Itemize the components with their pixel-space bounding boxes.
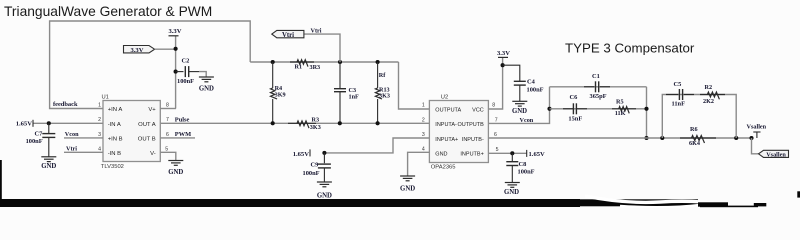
wire U1 pin8 stub [160, 108, 176, 110]
net label Vtri left [66, 146, 77, 153]
wire 3.3V port [155, 48, 176, 50]
wire 3.3V rail [175, 36, 177, 109]
svg-text:OUTPUTB: OUTPUTB [458, 122, 485, 128]
node dot C9 [322, 151, 326, 155]
svg-text:15nF: 15nF [568, 116, 582, 123]
svg-text:OUT B: OUT B [138, 136, 156, 142]
net label Vcon left [65, 131, 79, 138]
capacitor C8 [506, 153, 534, 182]
svg-text:8: 8 [166, 103, 169, 109]
wire C6 R5 mid [550, 108, 647, 110]
svg-text:Pulse: Pulse [175, 117, 190, 124]
resistor R6 [680, 126, 716, 147]
capacitor C9 [303, 153, 331, 182]
ground C8 [504, 183, 520, 197]
net tick Vsallen [753, 132, 760, 138]
svg-text:3K3: 3K3 [379, 92, 390, 99]
svg-text:U2: U2 [441, 94, 448, 100]
node dot C7 [47, 121, 51, 125]
net tick 1.65V mid [309, 149, 311, 156]
wire U2 pin5 [488, 152, 526, 154]
svg-text:C5: C5 [674, 81, 682, 88]
ground C4 [512, 101, 527, 115]
svg-text:Vtri: Vtri [311, 27, 322, 34]
svg-text:GND: GND [41, 163, 56, 170]
svg-text:OPA2365: OPA2365 [431, 165, 456, 171]
scan artifact left bar [0, 160, 2, 200]
svg-text:1: 1 [422, 103, 425, 109]
svg-text:V-: V- [150, 151, 156, 157]
scan artifact bottom bar [0, 191, 800, 207]
wire U1 pin4 Vtri stub [64, 151, 103, 153]
node dot R4 top [271, 60, 275, 64]
node dot 3.3V port [174, 47, 178, 51]
resistor R2 [700, 84, 725, 105]
svg-text:Rf: Rf [379, 72, 386, 79]
net label feedback [53, 101, 78, 108]
pin numbers U2 left [422, 103, 425, 153]
svg-text:C7: C7 [35, 130, 44, 137]
capacitor C5 [666, 81, 694, 108]
net label Vtri [311, 27, 322, 34]
node dot loop2 right [734, 136, 738, 140]
svg-text:5: 5 [496, 147, 499, 153]
svg-text:INPUTA-: INPUTA- [435, 122, 457, 128]
op-amp U2 [429, 94, 488, 170]
ground U2 pin4 [400, 176, 415, 192]
resistor R3 [288, 117, 321, 131]
svg-text:U1: U1 [102, 95, 109, 101]
port Vsallen [759, 150, 789, 158]
node dot C3 bottom [338, 121, 342, 125]
svg-text:3.3V: 3.3V [130, 47, 143, 54]
capacitor C1 [584, 73, 610, 100]
title: TriangualWave Generator & PWM [4, 4, 212, 19]
node dot R13 top [376, 60, 380, 64]
ground C9 [317, 182, 332, 199]
resistor R4 [271, 62, 286, 123]
svg-text:C2: C2 [182, 58, 190, 65]
net label PWM [160, 131, 195, 138]
title: TYPE 3 Compensator [565, 41, 695, 56]
svg-text:6: 6 [494, 132, 497, 138]
wire top row [250, 61, 398, 63]
net label 1.65V left [16, 121, 33, 128]
wire U2 pin3 [324, 138, 429, 153]
svg-text:3R3: 3R3 [310, 64, 321, 71]
svg-text:GND: GND [317, 192, 332, 199]
svg-text:2: 2 [422, 117, 425, 123]
svg-text:GND: GND [400, 185, 415, 192]
svg-text:INPUTA+: INPUTA+ [435, 137, 458, 143]
net label Vsallen [747, 124, 767, 131]
pin numbers U2 right [492, 103, 498, 153]
svg-text:100nF: 100nF [303, 170, 320, 177]
wire feedback loop [50, 21, 251, 109]
capacitor C3 [334, 62, 359, 123]
wire U1 pin3 Vcon stub [64, 137, 103, 139]
svg-text:1: 1 [98, 103, 101, 109]
svg-text:OUTPUTA: OUTPUTA [435, 108, 461, 114]
svg-text:Vtri: Vtri [282, 32, 294, 39]
wire U1 pin2 1.65V [33, 122, 103, 124]
resistor R1 [290, 60, 320, 71]
svg-text:R2: R2 [705, 84, 713, 91]
svg-text:GND: GND [199, 86, 214, 93]
svg-text:C8: C8 [519, 161, 527, 168]
svg-text:3.3V: 3.3V [497, 50, 510, 57]
svg-text:feedback: feedback [53, 101, 78, 108]
node dot comp mid right [644, 107, 648, 111]
svg-text:PWM: PWM [175, 131, 191, 138]
svg-text:-IN B: -IN B [108, 151, 121, 157]
svg-text:GND: GND [504, 189, 519, 196]
capacitor C6 [563, 94, 587, 122]
svg-text:7: 7 [166, 117, 169, 123]
capacitor C2 [176, 58, 207, 85]
wire INPUTB- row [488, 137, 751, 139]
wire Vcon [488, 87, 549, 124]
svg-text:Vsallen: Vsallen [747, 124, 767, 131]
ground C2 [199, 77, 214, 93]
svg-text:3: 3 [422, 132, 425, 138]
svg-text:4: 4 [98, 146, 101, 152]
svg-text:GND: GND [168, 169, 183, 176]
svg-text:GND: GND [512, 108, 527, 115]
net tick 1.65V right [526, 150, 528, 157]
node dot C2 branch [174, 70, 178, 74]
svg-text:1nF: 1nF [349, 93, 360, 100]
op-amp U1 [101, 95, 161, 170]
svg-text:100nF: 100nF [518, 168, 535, 175]
svg-text:Vcon: Vcon [520, 117, 534, 124]
svg-text:TLV3502: TLV3502 [101, 164, 124, 170]
svg-text:1.65V: 1.65V [529, 151, 546, 158]
wire U2 pin8 stub [488, 57, 502, 109]
pin numbers U1 right [165, 103, 169, 153]
svg-text:V+: V+ [148, 107, 156, 113]
svg-text:365pF: 365pF [590, 93, 607, 100]
svg-text:+IN B: +IN B [108, 136, 123, 142]
node dot C8 [510, 151, 514, 155]
svg-text:C6: C6 [570, 94, 579, 101]
svg-text:8: 8 [492, 103, 495, 109]
svg-text:7: 7 [495, 117, 498, 123]
wire U2 pin4 [408, 152, 430, 176]
wire U2 pin1 drop [399, 62, 430, 109]
svg-text:2K2: 2K2 [703, 98, 714, 105]
svg-text:R1: R1 [295, 64, 303, 71]
wire Pulse row [160, 122, 429, 124]
svg-text:INPUTB-: INPUTB- [462, 137, 484, 143]
wire comp right vertical [646, 87, 648, 138]
net label Vcon right [520, 117, 534, 124]
svg-text:C4: C4 [527, 78, 536, 85]
wire Vtri [304, 34, 340, 62]
svg-text:100nF: 100nF [177, 78, 194, 85]
svg-text:Vtri: Vtri [66, 146, 77, 153]
svg-text:3: 3 [98, 132, 101, 138]
port 3.3V [124, 46, 155, 55]
node dot comp left [547, 107, 551, 111]
svg-text:11nF: 11nF [672, 101, 686, 108]
wire U1 pin5 [160, 152, 176, 160]
svg-text:INPUTB+: INPUTB+ [460, 151, 483, 157]
svg-text:GND: GND [435, 151, 447, 157]
svg-text:3.3V: 3.3V [168, 28, 181, 35]
svg-text:Vcon: Vcon [65, 131, 79, 138]
svg-text:6K4: 6K4 [689, 140, 700, 147]
svg-text:C1: C1 [592, 73, 600, 80]
svg-text:100nF: 100nF [26, 138, 43, 145]
wire loop2 [662, 95, 736, 139]
svg-text:+IN A: +IN A [108, 107, 123, 113]
svg-text:C9: C9 [311, 162, 319, 169]
svg-text:VCC: VCC [472, 108, 484, 114]
capacitor C7 [26, 123, 56, 157]
svg-text:2: 2 [98, 117, 101, 123]
svg-text:-IN A: -IN A [108, 122, 121, 128]
net label 1.65V right [529, 151, 546, 158]
ground C7 [41, 157, 56, 170]
svg-text:100nF: 100nF [527, 87, 544, 94]
wire C1 top [550, 86, 647, 88]
svg-text:6: 6 [166, 132, 169, 138]
node dot R4 bottom [271, 121, 275, 125]
svg-text:R5: R5 [616, 99, 624, 106]
node dot C4 branch [501, 63, 505, 67]
net label Pulse [175, 117, 190, 124]
node dot Vsallen [749, 136, 753, 140]
net label 1.65V mid [293, 151, 310, 158]
svg-text:3K9: 3K9 [275, 92, 286, 99]
node dot loop2 left [660, 136, 664, 140]
capacitor C4 [503, 65, 544, 101]
svg-text:R6: R6 [690, 126, 698, 133]
svg-text:1.65V: 1.65V [293, 151, 310, 158]
power symbol 3.3V right [497, 50, 510, 57]
svg-text:TYPE 3 Compensator: TYPE 3 Compensator [565, 41, 695, 56]
resistor R13 (Rf) [375, 62, 390, 123]
node dot comp bot right [644, 136, 648, 140]
svg-text:Vsallen: Vsallen [766, 151, 786, 158]
net tick 1.65V left [32, 120, 34, 127]
pin numbers U1 left [98, 103, 101, 153]
svg-text:R3: R3 [312, 117, 320, 124]
svg-text:3K3: 3K3 [310, 124, 321, 131]
ground U1 V- [168, 161, 183, 176]
resistor R5 [612, 99, 636, 117]
port Vtri [272, 30, 304, 39]
svg-text:5: 5 [165, 146, 168, 152]
power symbol 3.3V left [168, 28, 181, 36]
node dot R13 bottom [376, 121, 380, 125]
svg-text:11K: 11K [615, 110, 626, 117]
svg-text:1.65V: 1.65V [16, 121, 33, 128]
node dot C3 top [338, 60, 342, 64]
svg-text:OUT A: OUT A [138, 122, 156, 128]
svg-text:TriangualWave Generator & PWM: TriangualWave Generator & PWM [4, 4, 212, 19]
wire Vsallen port [752, 138, 759, 154]
